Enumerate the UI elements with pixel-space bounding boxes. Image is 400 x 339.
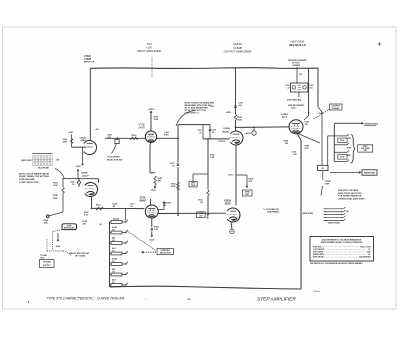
svg-text:1M: 1M: [113, 206, 116, 208]
svg-text:V153B: V153B: [223, 128, 230, 130]
svg-text:V183 V183A: V183 V183A: [290, 41, 304, 44]
svg-text:WAVEFORM: WAVEFORM: [364, 172, 375, 175]
svg-text:AUTO: AUTO: [246, 132, 252, 135]
svg-text:R140: R140: [56, 245, 60, 248]
svg-text:+225V: +225V: [225, 112, 231, 114]
svg-text:-150V: -150V: [149, 240, 155, 242]
svg-text:AMPLITUDE SELECTOR: AMPLITUDE SELECTOR: [338, 192, 362, 195]
svg-text:.001: .001: [163, 205, 167, 207]
svg-text:.05: .05: [130, 206, 133, 208]
svg-text:V152B: V152B: [84, 59, 91, 61]
svg-text:STEP AND AMP: STEP AND AMP: [19, 178, 36, 181]
svg-text:230: 230: [199, 215, 202, 217]
svg-text:220K: 220K: [53, 198, 58, 200]
svg-text:SEE STEP VOLTAGE: SEE STEP VOLTAGE: [338, 189, 359, 192]
svg-text:R190: R190: [340, 140, 344, 142]
svg-text:FRONT PANEL FOR SETTING: FRONT PANEL FOR SETTING: [19, 175, 49, 178]
svg-text:POWER: POWER: [43, 262, 51, 264]
svg-text:12AU7: 12AU7: [81, 140, 88, 142]
svg-text:27: 27: [288, 88, 290, 90]
svg-text:C142: C142: [70, 181, 75, 184]
svg-text:.001: .001: [238, 105, 242, 107]
svg-text:6DJ8: 6DJ8: [225, 203, 231, 206]
svg-text:FOR SERIES RESISTOR: FOR SERIES RESISTOR: [338, 196, 362, 198]
svg-text:SIGNAL: SIGNAL: [332, 107, 340, 110]
svg-text:NOTE: THESE VOLTAGES ARE: NOTE: THESE VOLTAGES ARE: [185, 102, 215, 105]
svg-text:SUB PANEL: SUB PANEL: [267, 211, 280, 214]
svg-text:1M: 1M: [200, 202, 203, 204]
svg-text:R143: R143: [53, 182, 58, 185]
svg-text:WW: WW: [44, 222, 48, 224]
svg-text:(SEE NOTE 2,3): (SEE NOTE 2,3): [289, 45, 306, 47]
svg-text:OUTPUT AMPLIFIER: OUTPUT AMPLIFIER: [224, 50, 252, 54]
svg-text:STEP ZERO BAL: STEP ZERO BAL: [287, 98, 303, 101]
svg-text:+150V: +150V: [75, 166, 81, 168]
svg-text:( STEP SELECTOR ): ( STEP SELECTOR ): [19, 182, 40, 184]
svg-text:NOTE: VOLTS WAVEFORM AT: NOTE: VOLTS WAVEFORM AT: [19, 172, 50, 175]
svg-text:CALIBRATED: CALIBRATED: [359, 256, 371, 259]
svg-text:V152A: V152A: [84, 55, 91, 58]
svg-text:AA: AA: [187, 297, 191, 301]
svg-text:R190: R190: [340, 157, 344, 159]
svg-text:470K: 470K: [171, 185, 176, 188]
svg-text:-150V: -150V: [227, 175, 233, 177]
svg-text:* LOCATED ON: * LOCATED ON: [263, 208, 279, 211]
svg-text:220: 220: [285, 143, 288, 145]
svg-text:47K: 47K: [249, 180, 253, 183]
svg-text:SELECTOR: SELECTOR: [160, 253, 171, 255]
svg-text:R156: R156: [96, 205, 101, 207]
svg-text:2.2K: 2.2K: [154, 229, 159, 231]
svg-text:-150V: -150V: [151, 190, 157, 192]
svg-text:TV2: TV2: [146, 42, 152, 46]
svg-text:INPUT CF: INPUT CF: [84, 62, 95, 64]
svg-text:.05: .05: [199, 132, 202, 134]
svg-text:+ R1: + R1: [95, 129, 99, 131]
svg-text:VOLTS/STEP: VOLTS/STEP: [107, 156, 120, 158]
svg-text:V152B: V152B: [81, 173, 88, 175]
svg-text:4.7K: 4.7K: [84, 213, 89, 216]
svg-text:MULTIPLIER: MULTIPLIER: [38, 167, 49, 169]
svg-text:OF V152B ): OF V152B ): [75, 255, 86, 257]
svg-text:2.2M: 2.2M: [210, 157, 215, 159]
svg-text:12AU7: 12AU7: [82, 175, 89, 177]
svg-text:6AN8: 6AN8: [139, 200, 146, 203]
svg-text:6AN8: 6AN8: [138, 127, 145, 130]
svg-text:AMPLITUDE: AMPLITUDE: [21, 159, 32, 162]
svg-text:AT 1K ZERO SET CCW: AT 1K ZERO SET CCW: [185, 109, 207, 112]
svg-text:+150V: +150V: [68, 132, 74, 134]
svg-text:4.7K: 4.7K: [305, 147, 310, 150]
svg-text:(6DJ8): (6DJ8): [222, 132, 229, 134]
svg-text:(GREEN): (GREEN): [293, 65, 301, 67]
svg-text:R170 25: R170 25: [219, 141, 226, 143]
svg-text:R150A: R150A: [113, 217, 120, 220]
svg-text:AMPLITUDE: AMPLITUDE: [313, 256, 324, 259]
svg-text:ADJUSTMENT & VOLTAGE READINGS: ADJUSTMENT & VOLTAGE READINGS: [322, 239, 362, 242]
svg-text:.001: .001: [309, 88, 313, 90]
svg-text:R140: R140: [62, 138, 67, 141]
svg-text:TRIG: TRIG: [191, 185, 196, 187]
svg-text:.005: .005: [293, 154, 297, 156]
svg-text:6CL6: 6CL6: [282, 117, 288, 119]
svg-text:SUPPLY: SUPPLY: [43, 265, 51, 267]
svg-text:SW: SW: [56, 160, 59, 162]
svg-text:AT .01 AND SERIES RES: AT .01 AND SERIES RES: [185, 107, 209, 110]
svg-text:SW: SW: [364, 150, 367, 152]
svg-text:C143: C143: [53, 184, 58, 187]
svg-text:100K: 100K: [154, 119, 159, 121]
svg-text:LOAD: LOAD: [318, 112, 324, 115]
svg-text:(SEE PLATE CIRCUIT: (SEE PLATE CIRCUIT: [69, 252, 90, 255]
svg-text:.05: .05: [212, 132, 215, 134]
svg-text:+225V: +225V: [148, 109, 155, 111]
svg-text:MEASURED WITH STEP SEL: MEASURED WITH STEP SEL: [185, 104, 213, 107]
svg-text:220K: 220K: [237, 120, 242, 122]
svg-text:T601 ): T601 ): [291, 108, 297, 110]
svg-text:INPUT AMPLIFIER: INPUT AMPLIFIER: [137, 49, 161, 53]
svg-text:V183A: V183A: [281, 114, 288, 116]
svg-text:STEP: STEP: [325, 184, 331, 186]
svg-text:( HORIZONTAL AMPLIFIER ): ( HORIZONTAL AMPLIFIER ): [338, 197, 366, 200]
svg-text:AMPLITUDE: AMPLITUDE: [328, 222, 340, 225]
svg-text:AMPLITUDE: AMPLITUDE: [64, 227, 75, 230]
svg-text:TYPE 575 CHARACTERISTIC - CURV: TYPE 575 CHARACTERISTIC - CURVE TRACER: [46, 296, 125, 300]
svg-text:180K: 180K: [62, 141, 67, 143]
svg-text:(REP NUM): (REP NUM): [303, 213, 314, 215]
svg-text:SEE PARTS LIST FOR EARLIER VAL: SEE PARTS LIST FOR EARLIER VALUES OF PAR…: [310, 262, 363, 265]
svg-text:2.2: 2.2: [72, 184, 75, 186]
svg-text:STEP AMPLIFIER: STEP AMPLIFIER: [257, 296, 296, 302]
svg-text:SELECTOR SW: SELECTOR SW: [107, 159, 122, 161]
